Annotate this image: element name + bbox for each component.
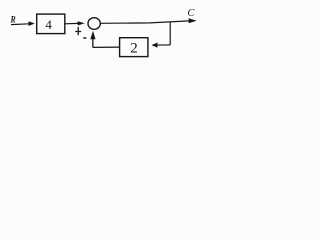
- arrowhead into block2: [151, 43, 157, 48]
- wire R input: [11, 23, 29, 26]
- background: [0, 0, 204, 64]
- sign minus: [83, 37, 86, 39]
- wire block4 to summer: [65, 22, 78, 24]
- arrowhead output C: [189, 18, 197, 23]
- wire summer to C output: [100, 21, 189, 23]
- svg-text:4: 4: [45, 17, 52, 32]
- svg-text:C: C: [187, 8, 195, 19]
- block G=4: [37, 14, 65, 33]
- arrowhead into block4: [29, 21, 35, 26]
- block H=2: [120, 38, 148, 57]
- wire takeoff vertical: [169, 22, 171, 45]
- summing junction: [88, 18, 100, 30]
- svg-text:R: R: [10, 16, 16, 26]
- wire takeoff to block2: [157, 44, 170, 46]
- svg-text:2: 2: [130, 41, 138, 57]
- wire block2 to riser: [93, 46, 120, 48]
- arrowhead into summer: [78, 21, 85, 25]
- arrowhead feedback into summer: [90, 31, 95, 40]
- sign plus: [75, 27, 81, 35]
- wire feedback riser: [92, 39, 94, 48]
